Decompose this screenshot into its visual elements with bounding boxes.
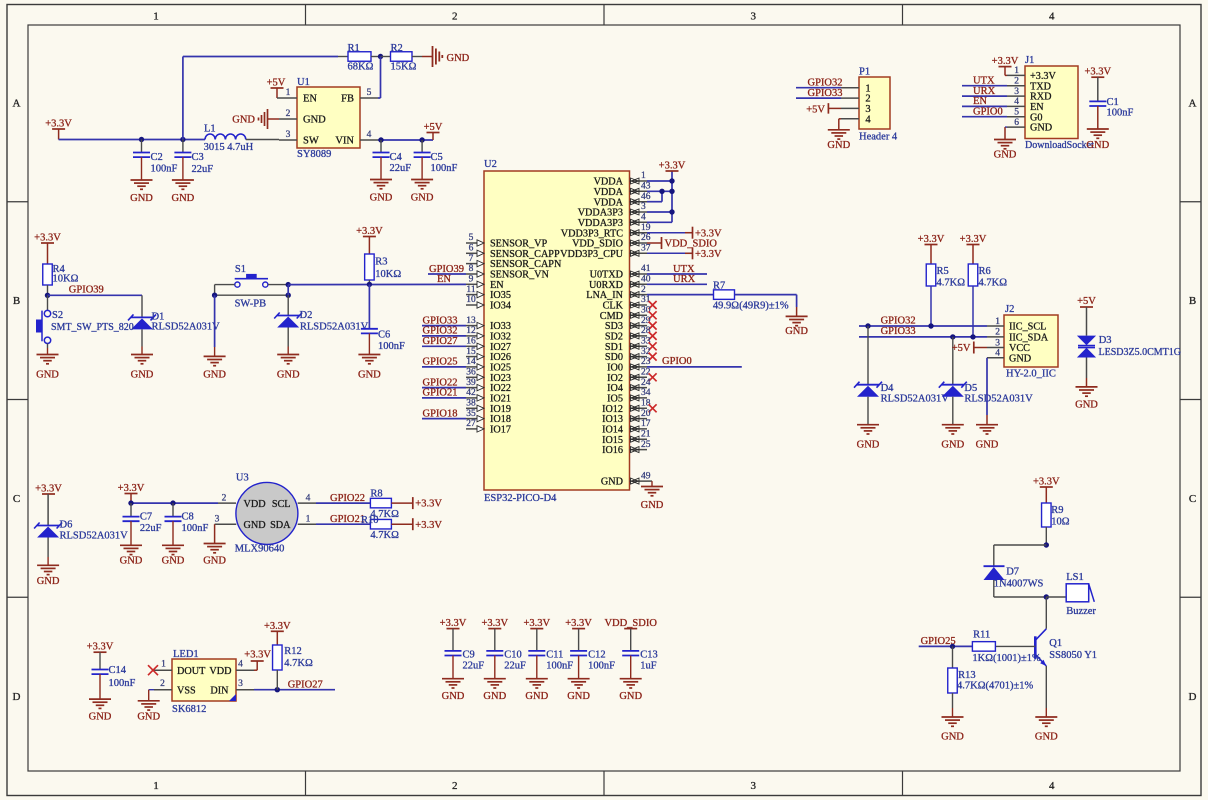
junction D5/GPIO33 <box>950 334 955 339</box>
svg-text:GND: GND <box>137 712 160 723</box>
svg-text:GND: GND <box>941 440 964 451</box>
no-ERC marker on SD3 <box>649 322 657 330</box>
U2 pin 35 IO18 <box>466 409 511 425</box>
capacitor C8 100nF <box>165 503 209 545</box>
capacitor C9 22uF <box>445 650 485 679</box>
ground GND (C7) <box>120 545 143 566</box>
wire J1 pin6 to ground <box>1005 126 1007 128</box>
svg-text:4.7KΩ: 4.7KΩ <box>284 658 313 669</box>
svg-text:GND: GND <box>277 370 300 381</box>
wire+net label GPIO32 (P1 pin1) <box>796 77 843 88</box>
no-ERC marker on LED1 DOUT <box>148 665 158 675</box>
resistor R11 1KOhm <box>972 630 1041 665</box>
svg-text:GND: GND <box>172 193 195 204</box>
svg-text:C1: C1 <box>1107 97 1119 108</box>
svg-text:41: 41 <box>641 264 651 274</box>
svg-text:ESP32-PICO-D4: ESP32-PICO-D4 <box>484 493 557 504</box>
junction S1 right bottom <box>286 293 291 298</box>
svg-text:20: 20 <box>641 409 651 419</box>
svg-text:34: 34 <box>641 388 651 398</box>
wire +3.3V rail to L1 <box>59 139 205 141</box>
svg-text:3: 3 <box>1014 87 1019 97</box>
svg-text:VDDA: VDDA <box>594 187 624 198</box>
wire+net label GPIO22 at U2 <box>422 377 466 388</box>
U2 pin 17 IO14 <box>602 419 651 435</box>
U2 pin 16 IO27 <box>466 337 511 353</box>
svg-text:U2: U2 <box>484 159 497 170</box>
svg-text:C: C <box>1189 493 1196 505</box>
svg-text:+3.3V: +3.3V <box>87 642 114 653</box>
svg-text:3015 4.7uH: 3015 4.7uH <box>204 142 254 153</box>
svg-text:P1: P1 <box>859 67 870 78</box>
svg-text:14: 14 <box>466 357 476 367</box>
svg-text:3: 3 <box>995 338 1000 348</box>
U2 pin 21 IO15 <box>602 429 651 445</box>
svg-text:35: 35 <box>466 409 476 419</box>
svg-text:1: 1 <box>995 317 1000 327</box>
svg-text:49: 49 <box>641 471 651 481</box>
svg-text:C10: C10 <box>504 650 522 661</box>
svg-text:GND: GND <box>37 576 60 587</box>
svg-text:100nF: 100nF <box>378 341 405 352</box>
ground GND (C3) <box>172 180 195 204</box>
LED driver LED1 SK6812 <box>154 649 254 715</box>
U2 pin 34 IO5 <box>607 388 651 404</box>
svg-text:R11: R11 <box>973 630 990 641</box>
svg-text:SY8089: SY8089 <box>297 149 331 160</box>
svg-text:1: 1 <box>641 171 646 181</box>
svg-text:IIC_SCL: IIC_SCL <box>1009 322 1046 333</box>
svg-text:IO25: IO25 <box>490 363 511 374</box>
power flag +3.3V (J1 pin1) <box>992 56 1019 75</box>
junction R6/GPIO33 <box>970 334 975 339</box>
ground GND (C1) <box>1086 129 1109 151</box>
svg-text:1: 1 <box>161 660 166 670</box>
svg-text:GND: GND <box>203 370 226 381</box>
ground GND (D1) <box>131 355 154 381</box>
svg-text:32: 32 <box>641 347 651 357</box>
svg-text:C11: C11 <box>546 650 563 661</box>
wire LED1 VSS to ground <box>149 689 154 691</box>
svg-text:SS8050 Y1: SS8050 Y1 <box>1049 650 1097 661</box>
wire+net label GPIO22 (U3 SCL) <box>298 493 371 504</box>
svg-text:GPIO18: GPIO18 <box>423 408 458 419</box>
svg-text:SW-PB: SW-PB <box>235 299 267 310</box>
svg-text:D: D <box>1189 691 1197 703</box>
svg-text:B: B <box>1189 295 1196 307</box>
svg-text:16: 16 <box>466 337 476 347</box>
svg-text:GPIO21: GPIO21 <box>330 514 365 525</box>
svg-text:25: 25 <box>641 440 651 450</box>
U2 pin 19 VDD3P3_RTC <box>561 223 651 239</box>
svg-text:4.7KΩ: 4.7KΩ <box>370 530 399 541</box>
U2 pin 7 SENSOR_CAPN <box>466 254 562 270</box>
svg-text:LED1: LED1 <box>173 649 199 660</box>
svg-text:15: 15 <box>466 347 476 357</box>
svg-text:+3.3V: +3.3V <box>244 650 271 661</box>
svg-text:31: 31 <box>641 295 651 305</box>
svg-text:IO0: IO0 <box>607 363 623 374</box>
U2 pin 42 IO21 <box>466 388 511 404</box>
ground GND (U2 pin49) <box>641 481 664 511</box>
U2 pin 2 LNA_IN <box>586 285 647 301</box>
wire+net label GPIO32 (J2) <box>859 315 987 326</box>
wire+net label UTX (U0TXD) <box>647 264 707 275</box>
svg-text:VDD_SDIO: VDD_SDIO <box>604 618 657 629</box>
svg-text:+3.3V: +3.3V <box>1084 67 1111 78</box>
power flag VDD_SDIO (C13) <box>604 618 657 651</box>
U2 pin 26 VDD_SDIO <box>572 233 651 249</box>
no-ERC marker on SD1 <box>649 342 657 350</box>
svg-text:3: 3 <box>865 104 870 115</box>
svg-text:10KΩ: 10KΩ <box>53 274 79 285</box>
svg-text:GPIO33: GPIO33 <box>808 88 843 99</box>
svg-text:RLSD52A031V: RLSD52A031V <box>881 394 950 405</box>
junction VDDA1 <box>669 178 674 183</box>
power flag +3.3V (LED1 VDD) <box>244 650 271 671</box>
U2 pin 15 IO26 <box>466 347 511 363</box>
U2 pin 13 IO33 <box>466 316 511 332</box>
ground GND (D3) <box>1075 387 1098 411</box>
svg-text:SK6812: SK6812 <box>172 704 206 715</box>
power bar +3.3V (R10) <box>413 518 443 531</box>
svg-text:GPIO27: GPIO27 <box>288 680 323 691</box>
capacitor C1 100nF <box>1084 67 1133 129</box>
junction R3/EN <box>367 282 372 287</box>
svg-text:R13: R13 <box>958 670 976 681</box>
svg-text:GND: GND <box>303 115 326 126</box>
svg-text:R8: R8 <box>370 489 382 500</box>
svg-text:15KΩ: 15KΩ <box>391 62 417 73</box>
svg-text:8: 8 <box>469 264 474 274</box>
svg-text:GND: GND <box>525 691 548 702</box>
svg-text:C13: C13 <box>640 650 658 661</box>
U2 pin 31 CLK <box>603 295 651 311</box>
ground GND (U3) <box>203 544 226 567</box>
U2 pin 14 IO25 <box>466 357 511 373</box>
svg-text:GND: GND <box>827 140 850 151</box>
wire+net label GPIO33 (P1 pin2) <box>796 88 843 99</box>
svg-text:GPIO25: GPIO25 <box>423 357 458 368</box>
svg-text:IO5: IO5 <box>607 394 623 405</box>
svg-text:GPIO32: GPIO32 <box>881 315 916 326</box>
svg-text:A: A <box>13 98 21 110</box>
svg-text:RLSD52A031V: RLSD52A031V <box>152 322 221 333</box>
U2 pin 22 IO2 <box>607 368 651 384</box>
TVS diode D2 RLSD52A031V <box>274 310 368 355</box>
power flag +3.3V (C12) <box>565 618 592 651</box>
buzzer LS1 <box>1066 572 1096 617</box>
wire LNA_IN to R7 <box>647 294 714 296</box>
junction C2 <box>139 137 144 142</box>
svg-text:R12: R12 <box>284 646 302 657</box>
U2 pin 23 IO0 <box>607 357 651 373</box>
svg-text:C3: C3 <box>192 152 204 163</box>
svg-text:+3.3V: +3.3V <box>659 161 686 172</box>
junction R12/DIN <box>275 687 280 692</box>
svg-text:R2: R2 <box>391 43 403 54</box>
svg-text:RLSD52A031V: RLSD52A031V <box>300 322 369 333</box>
ground GND (S1) <box>203 356 226 380</box>
U2 pin 6 SENSOR_CAPP <box>466 244 560 260</box>
svg-text:17: 17 <box>641 419 651 429</box>
wire+net label URX (U0RXD) <box>647 274 707 285</box>
svg-text:VDD3P3_CPU: VDD3P3_CPU <box>560 249 623 260</box>
wire+net label GPIO25 at U2 <box>422 357 466 368</box>
resistor R13 4.7KOhm <box>948 646 1034 717</box>
U2 pin 4 VDDA3P3 <box>578 213 647 229</box>
svg-text:J2: J2 <box>1005 304 1014 315</box>
svg-text:100nF: 100nF <box>546 661 573 672</box>
svg-text:1: 1 <box>153 11 159 23</box>
net label VDD_SDIO (pin 26) <box>647 237 717 250</box>
svg-text:IO32: IO32 <box>490 332 511 343</box>
svg-text:+3.3V: +3.3V <box>264 621 291 632</box>
junction D7/buzzer/Q1 <box>1044 594 1049 599</box>
power flag +3.3V (R5) <box>918 234 945 264</box>
power bar +3.3V (VDD3P3_RTC) <box>647 227 722 240</box>
svg-text:GND: GND <box>641 500 664 511</box>
U2 pin 9 EN <box>466 275 504 291</box>
ground GND (C5) <box>411 180 434 204</box>
svg-text:5: 5 <box>469 233 474 243</box>
TVS diode D5 RLSD52A031V <box>939 337 1033 425</box>
svg-text:+3.3V: +3.3V <box>992 56 1019 67</box>
resistor R10 4.7KOhm <box>361 515 413 541</box>
svg-text:22uF: 22uF <box>504 661 526 672</box>
wire VIN to +5V <box>378 139 433 141</box>
ground GND (R13) <box>941 717 964 743</box>
U2 pin 18 IO12 <box>602 399 651 415</box>
svg-text:4: 4 <box>995 349 1000 359</box>
svg-text:+3.3V: +3.3V <box>960 234 987 245</box>
svg-text:SENSOR_CAPN: SENSOR_CAPN <box>490 259 562 270</box>
ground GND (R7) <box>785 316 808 337</box>
ground GND (Q1) <box>1035 717 1058 743</box>
svg-text:+5V: +5V <box>952 343 971 354</box>
ground GND (LED1) <box>137 701 160 723</box>
svg-text:6: 6 <box>1014 118 1019 128</box>
wire L1 to SW pin <box>246 139 279 141</box>
ground GND (D5) <box>941 425 964 451</box>
svg-text:Q1: Q1 <box>1049 638 1062 649</box>
resistor R4 10KOhm <box>43 264 79 295</box>
ground GND (C14) <box>89 699 112 722</box>
svg-text:G0: G0 <box>1030 112 1042 123</box>
wire+net label GPIO21 (U3 SDA) <box>298 514 371 525</box>
svg-text:1N4007WS: 1N4007WS <box>994 579 1044 590</box>
svg-text:1uF: 1uF <box>640 661 657 672</box>
junction C8 <box>170 500 175 505</box>
svg-text:22uF: 22uF <box>192 164 214 175</box>
svg-text:+3.3V: +3.3V <box>45 119 72 130</box>
no-ERC marker on IO2 <box>649 373 657 381</box>
svg-text:EN: EN <box>303 94 317 105</box>
svg-text:GND: GND <box>1075 400 1098 411</box>
wire+net label GPIO33 (J2) <box>859 326 987 337</box>
svg-text:4.7KΩ: 4.7KΩ <box>937 278 966 289</box>
svg-text:GND: GND <box>120 556 143 567</box>
svg-text:23: 23 <box>641 357 651 367</box>
U2 pin 30 CMD <box>600 306 651 322</box>
power bar +3.3V (R8) <box>413 497 443 510</box>
svg-text:GND: GND <box>1009 353 1031 364</box>
power flag +3.3V (C11) <box>523 618 550 651</box>
svg-text:1: 1 <box>153 780 159 792</box>
svg-text:C12: C12 <box>588 650 606 661</box>
pushbutton S1 SW-PB <box>215 264 289 310</box>
power flag +5V (D3) <box>1077 296 1096 336</box>
svg-text:DIN: DIN <box>210 686 229 697</box>
svg-text:4: 4 <box>1049 11 1055 23</box>
ground GND sideways (U1 pin2) <box>232 109 279 129</box>
junction S1 right top <box>286 282 291 287</box>
svg-text:B: B <box>13 295 20 307</box>
svg-text:HY-2.0_IIC: HY-2.0_IIC <box>1006 369 1056 380</box>
svg-text:27: 27 <box>466 419 476 429</box>
svg-text:18: 18 <box>641 399 651 409</box>
wire+net label URX (J1 pin3) <box>962 86 1007 97</box>
ground GND (C9) <box>442 679 465 702</box>
svg-text:+5V: +5V <box>424 122 443 133</box>
svg-text:GND: GND <box>442 691 465 702</box>
svg-text:28: 28 <box>641 326 651 336</box>
svg-text:2: 2 <box>286 109 291 119</box>
junction S1 lower-left <box>212 293 217 298</box>
svg-text:C6: C6 <box>378 330 390 341</box>
svg-text:+3.3V: +3.3V <box>35 484 62 495</box>
U2 pin 29 SD3 <box>605 316 651 332</box>
ground GND (D2) <box>277 355 300 381</box>
power flag +5V (U1 EN) <box>267 78 286 99</box>
connector J2 HY-2.0_IIC <box>987 304 1058 380</box>
wire feedback vertical from C3 junction <box>182 57 184 140</box>
svg-text:SD2: SD2 <box>605 332 623 343</box>
ground GND sideways (R2) <box>422 46 470 67</box>
svg-text:10Ω: 10Ω <box>1051 517 1070 528</box>
svg-text:VSS: VSS <box>177 686 196 697</box>
U2 pin 36 IO23 <box>466 368 511 384</box>
svg-text:100nF: 100nF <box>588 661 615 672</box>
svg-text:RLSD52A031V: RLSD52A031V <box>60 531 129 542</box>
svg-text:2: 2 <box>452 11 458 23</box>
U2 pin 39 IO22 <box>466 378 511 394</box>
svg-text:5: 5 <box>367 88 372 98</box>
svg-text:4: 4 <box>1049 780 1055 792</box>
junction C5 <box>419 137 424 142</box>
resistor R12 4.7KOhm <box>264 621 313 690</box>
svg-text:3: 3 <box>641 202 646 212</box>
svg-text:43: 43 <box>641 182 651 192</box>
svg-text:Header 4: Header 4 <box>859 132 898 143</box>
svg-text:100nF: 100nF <box>109 678 136 689</box>
svg-text:GND: GND <box>567 691 590 702</box>
svg-text:4.7KΩ(4701)±1%: 4.7KΩ(4701)±1% <box>957 681 1034 692</box>
resistor R2 15KOhm <box>381 43 423 73</box>
svg-text:GND: GND <box>447 53 470 64</box>
svg-text:A: A <box>1189 98 1197 110</box>
svg-text:Buzzer: Buzzer <box>1066 606 1096 617</box>
svg-text:2: 2 <box>452 780 458 792</box>
svg-text:GND: GND <box>411 193 434 204</box>
power flag +3.3V (D6) <box>35 484 62 526</box>
svg-text:C9: C9 <box>463 650 475 661</box>
svg-text:D3: D3 <box>1099 335 1112 346</box>
svg-text:36: 36 <box>466 368 476 378</box>
junction C7 <box>128 500 133 505</box>
svg-text:+3.3V: +3.3V <box>565 618 592 629</box>
resistor R3 10KOhm <box>365 254 402 284</box>
svg-text:33: 33 <box>641 337 651 347</box>
wire+net label GPIO39 <box>48 285 143 296</box>
svg-text:GND: GND <box>1035 732 1058 743</box>
svg-text:GND: GND <box>36 370 59 381</box>
TVS diode D1 RLSD52A031V <box>128 312 220 355</box>
no-ERC marker on CMD <box>649 311 657 319</box>
power bar +5V (J2 VCC) <box>952 342 987 355</box>
svg-text:11: 11 <box>466 285 475 295</box>
svg-text:LESD3Z5.0CMT1G: LESD3Z5.0CMT1G <box>1099 347 1182 358</box>
resistor R8 4.7KOhm <box>370 489 412 521</box>
svg-text:IIC_SDA: IIC_SDA <box>1009 333 1049 344</box>
no-ERC marker on CLK <box>649 301 657 309</box>
svg-text:10: 10 <box>466 295 476 305</box>
svg-text:R1: R1 <box>348 43 360 54</box>
svg-text:GND: GND <box>941 732 964 743</box>
junction C4 <box>378 137 383 142</box>
svg-text:R7: R7 <box>713 281 725 292</box>
power flag +3.3V (input of regulator) <box>45 119 72 140</box>
svg-text:VIN: VIN <box>335 136 354 147</box>
svg-text:GND: GND <box>857 440 880 451</box>
svg-text:40: 40 <box>641 275 651 285</box>
svg-text:GPIO0: GPIO0 <box>973 107 1003 118</box>
U2 pin 41 U0TXD <box>590 264 651 280</box>
svg-text:SW: SW <box>303 136 319 147</box>
svg-text:+3.3V: +3.3V <box>440 618 467 629</box>
svg-text:GND: GND <box>370 193 393 204</box>
ground GND (C4) <box>370 180 393 204</box>
wire down to D1 <box>141 295 143 317</box>
U2 pin 11 IO35 <box>466 285 511 301</box>
svg-text:68KΩ: 68KΩ <box>348 62 374 73</box>
svg-text:VDD: VDD <box>209 666 231 677</box>
wire FB net vertical <box>380 57 382 99</box>
wire EN net S1 to R3 to U2 <box>288 283 466 285</box>
ground GND (C12) <box>567 679 590 702</box>
svg-text:+3.3V: +3.3V <box>918 234 945 245</box>
U2 pin 38 IO19 <box>466 399 511 415</box>
svg-text:22: 22 <box>641 368 651 378</box>
wire S1 to ground <box>214 295 216 347</box>
svg-text:GPIO0: GPIO0 <box>662 356 692 367</box>
power bar +3.3V (VDD3P3_CPU) <box>647 247 722 260</box>
TVS diode D3 LESD3Z5.0CMT1G (bidirectional) <box>1077 335 1181 387</box>
svg-text:R6: R6 <box>979 266 991 277</box>
svg-text:GND: GND <box>232 115 255 126</box>
wire+net label GPIO0 (J1 pin5) <box>962 107 1007 118</box>
wire D7 branch upper <box>994 544 1047 546</box>
svg-text:37: 37 <box>641 244 651 254</box>
capacitor C6 100nF <box>361 284 405 354</box>
svg-text:100nF: 100nF <box>151 164 178 175</box>
wire+net label GPIO33 at U2 <box>422 315 466 326</box>
svg-text:IO34: IO34 <box>490 301 511 312</box>
power flag +3.3V (C7/U3) <box>118 483 145 503</box>
capacitor C14 100nF <box>87 642 136 699</box>
transistor Q1 SS8050 <box>996 597 1097 717</box>
wire+net label GPIO18 at U2 <box>422 408 466 419</box>
